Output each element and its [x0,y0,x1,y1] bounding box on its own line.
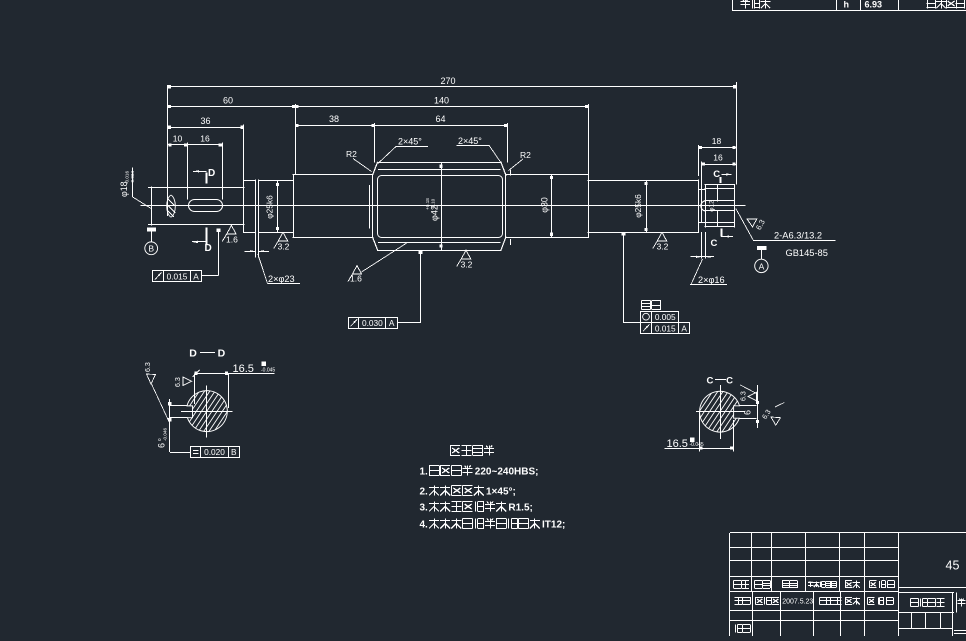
section D-D crosshair centerlines [181,411,233,413]
svg-text:18: 18 [712,136,722,146]
svg-text:GB145-85: GB145-85 [786,248,828,258]
dim phi30 (rotated) [551,175,553,238]
stage mark cell 阶段标记 [898,592,954,594]
roughness 3.2 under right journal [657,232,666,241]
tolerance frames 0.005 / 0.015 A at right (two places) [642,300,651,302]
runout tolerance frame 0.015 A at left [153,271,202,282]
left end chamfer hatched lens [167,195,176,217]
svg-text:16.5: 16.5 [667,438,688,450]
runout tolerance frame 0.030 A middle [349,318,398,329]
svg-text:0.015: 0.015 [167,271,188,281]
svg-text:6.93: 6.93 [865,0,883,10]
dim 6 keyway width (D-D) [170,405,187,407]
stage mark small cells [898,612,954,614]
svg-text:1.6: 1.6 [226,235,238,245]
material cell: 45 steel [898,587,966,589]
shaft section 7 keyed right end [705,184,734,186]
dim 2 groove right with leader 2xphi16 [701,232,703,258]
svg-text:h: h [844,0,850,10]
svg-text:D: D [189,347,197,359]
svg-text:0.005: 0.005 [655,312,676,322]
svg-text:6.3: 6.3 [175,377,182,387]
bottom right double lines [954,630,966,632]
center holes note 2-A6.3/13.2 GB145-85 [753,240,835,242]
svg-text:D: D [208,168,215,179]
title block upper verticals [751,533,753,592]
svg-text:A: A [193,271,199,281]
roughness 6.3 on keyway side (D-D) [183,377,192,385]
roughness 6.3 pointing left (C-C) [748,392,757,400]
dim phi25k6 right journal (rotated) [646,180,648,232]
roughness 6.3 lower right (C-C) [762,409,781,426]
shaft centerline [141,205,745,207]
shoulder face phi30 to right journal [588,175,590,238]
svg-text:6.3: 6.3 [145,362,152,372]
relief groove 2xphi23 [255,180,257,232]
svg-text:2×φ16: 2×φ16 [698,275,725,285]
svg-text:0: 0 [157,438,162,441]
technical requirements title 技术要求 [450,446,452,456]
svg-text:140: 140 [434,95,449,105]
shaft section 4 phi42 worm body with 2x45 chamfers [378,162,502,164]
section C-C crosshair centerlines [696,411,745,413]
svg-text:φ25k6: φ25k6 [265,195,275,219]
title block row 标记 处数 分区 更改文件号 签名 年月日 [734,580,742,582]
svg-text:6: 6 [743,410,753,415]
dim 2 groove left with leader 2xphi23 [255,232,257,257]
svg-text:C: C [713,169,720,180]
svg-text:45: 45 [946,559,960,573]
svg-text:1.6: 1.6 [350,274,362,284]
svg-text:A: A [681,323,687,333]
shaft section 2 phi25k6 left journal [244,180,256,182]
svg-text:φ25k6: φ25k6 [633,194,643,218]
svg-text:A: A [759,261,765,271]
relief groove 2xphi16 at right [698,189,705,191]
dim phi25k6 left journal (rotated) [277,180,279,232]
dim 10 keyway start [168,144,188,146]
svg-text:2×45°: 2×45° [398,137,422,147]
worm tooth reference lines [379,169,501,171]
dim 6 keyway width (C-C) [740,405,757,407]
svg-text:D: D [218,347,226,359]
svg-text:3.2: 3.2 [278,241,290,251]
title block row 审核 [735,625,737,633]
roughness 6.3 at right end face with leader [745,213,767,231]
svg-text:16: 16 [713,153,723,163]
shoulder face between section1 and journal [243,180,245,232]
svg-text:16.5: 16.5 [233,363,254,375]
datum B symbol [147,228,156,232]
svg-text:B: B [148,244,154,254]
shaft section 1 phi18 keyed left end [151,187,244,189]
dim 16 keyway length [188,144,222,146]
svg-text:2007.5.23: 2007.5.23 [782,599,813,606]
svg-text:0.030: 0.030 [362,318,383,328]
shaft section 6 phi25k6 right journal [588,180,698,182]
svg-text:R2: R2 [520,150,531,160]
svg-text:16: 16 [200,133,210,143]
dim 140 [295,106,588,108]
svg-text:+0.18: +0.18 [425,198,430,210]
svg-text:220~240HBS;: 220~240HBS; [475,467,539,478]
journal right end face [698,180,700,232]
dim 16.5 across keyway flat (D-D) [194,373,274,375]
svg-text:2×45°: 2×45° [458,136,482,146]
svg-text:R2: R2 [346,149,357,159]
svg-text:D: D [205,243,212,254]
svg-text:3.: 3. [420,503,429,514]
datum A symbol [757,246,766,250]
svg-text:-0.045: -0.045 [690,442,704,448]
dim 16.5 (C-C) [665,448,733,450]
svg-text:R1.5;: R1.5; [508,503,532,514]
svg-text:36: 36 [200,116,210,126]
dim 18 right end length [698,147,736,149]
svg-text:-0.046: -0.046 [163,428,168,441]
svg-text:φ12: φ12 [709,200,716,212]
keyway slot on section 1 (plan view) [189,200,223,212]
title block outer border and grid [730,532,966,534]
svg-text:C: C [726,375,733,386]
svg-text:-0.10: -0.10 [431,198,436,209]
roughness 6.3 upper left (D-D) [147,374,156,384]
roughness 3.2 under worm body [461,250,470,259]
svg-text:0.020: 0.020 [204,447,225,457]
section cut D-D marks [206,172,208,183]
worm parameter table row: 全齿高 h 6.93 [732,0,734,11]
svg-text:-0.045: -0.045 [261,368,275,374]
dim 38 [295,125,374,127]
svg-text:3.2: 3.2 [657,241,669,251]
dim 270 overall length [167,85,169,216]
svg-text:4.: 4. [420,520,429,531]
keyway on right end (side view) [705,200,734,202]
roughness 1.6 with leader at worm left bottom [353,266,362,275]
svg-text:A: A [389,318,395,328]
svg-text:φ30: φ30 [540,197,550,213]
svg-text:6: 6 [157,443,167,448]
dim 36 [168,127,244,129]
svg-text:IT12;: IT12; [542,520,565,531]
title block lower verticals [752,592,754,636]
dim 60 [168,106,296,108]
svg-text:2-A6.3/13.2: 2-A6.3/13.2 [774,231,822,241]
svg-text:38: 38 [329,114,339,124]
shaft section 5 phi30 right [506,174,588,176]
svg-text:64: 64 [435,114,445,124]
shaft section 3 phi30 left [293,174,372,176]
svg-text:270: 270 [440,76,455,86]
svg-text:2×φ23: 2×φ23 [268,274,295,284]
shoulder face journal to phi30 [293,175,295,238]
fillet tangent marks at worm right shoulder [510,170,512,175]
roughness 1.6 under section1 [227,225,236,234]
worm root cylinder (inner rounded rect) [378,176,503,238]
svg-text:C: C [711,238,718,249]
symmetry tolerance frame 0.020 B (D-D) [191,447,240,458]
svg-text:C: C [707,375,714,386]
svg-text:1.: 1. [420,467,429,478]
dim 16 right keyway length [702,164,736,166]
dim phi42 with tolerance (rotated) [441,162,443,250]
svg-text:1×45°;: 1×45°; [486,487,516,498]
svg-text:60: 60 [223,95,233,105]
svg-text:2.: 2. [420,487,429,498]
roughness 3.2 under left journal [278,232,287,241]
svg-text:6.3: 6.3 [741,391,748,401]
dim phi18 with tolerance (rotated, leader to left end) [119,181,129,197]
fillet tangent line at worm left shoulder [369,186,371,228]
svg-text:0.015: 0.015 [655,323,676,333]
svg-text:-0.016: -0.016 [125,171,130,184]
svg-text:10: 10 [173,133,183,143]
svg-text:3.2: 3.2 [461,259,473,269]
svg-text:B: B [231,447,237,457]
title block row 设计 name date 标准化 [735,597,743,599]
dim 64 [375,125,508,127]
